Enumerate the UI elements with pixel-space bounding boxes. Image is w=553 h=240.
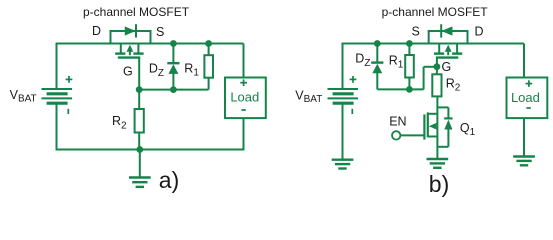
svg-text:D: D — [92, 24, 101, 38]
wire: battery top vertical (right) — [342, 43, 344, 90]
node gate/R2 dot — [136, 86, 143, 93]
svg-text:D: D — [475, 25, 484, 39]
svg-text:b): b) — [429, 171, 449, 197]
svg-text:VBAT: VBAT — [10, 88, 37, 105]
MOSFET channel structure (right) — [434, 44, 462, 58]
wire: top rail S-D — [343, 43, 525, 45]
svg-text:G: G — [442, 60, 452, 74]
wire: top rail D-S — [57, 43, 244, 45]
resistor R2 (right) — [432, 67, 441, 97]
wire: battery bottom vertical — [56, 103, 58, 150]
EN input circle — [392, 131, 424, 139]
ground (right battery) — [332, 160, 354, 169]
svg-text:EN: EN — [389, 115, 406, 129]
wire: jog horizontal to G dot — [424, 66, 437, 68]
svg-text:R2: R2 — [446, 77, 461, 94]
resistor R1 (left) — [204, 44, 213, 90]
ground (right load) — [513, 157, 535, 166]
MOSFET body diode loop (right, mirrored) — [428, 24, 469, 44]
node DZ top dot (right) — [374, 40, 381, 47]
svg-text:DZ: DZ — [149, 62, 164, 79]
zener diode DZ (right) — [371, 44, 383, 90]
node R2 bottom dot — [136, 146, 143, 153]
svg-text:Load: Load — [230, 90, 259, 105]
zener diode DZ (left) — [167, 44, 179, 90]
svg-text:S: S — [156, 25, 164, 39]
node G dot (right) — [434, 63, 441, 70]
svg-text:G: G — [123, 65, 133, 79]
transistor Q1 N-MOSFET — [424, 96, 452, 158]
svg-text:VBAT: VBAT — [295, 88, 322, 105]
resistor R2 (left) — [135, 90, 144, 150]
wire: battery top vertical — [56, 43, 58, 90]
svg-text:Q1: Q1 — [460, 121, 476, 138]
svg-text:a): a) — [159, 167, 179, 193]
svg-text:p-channel MOSFET: p-channel MOSFET — [83, 5, 190, 19]
resistor R1 (right) — [405, 44, 414, 90]
wire: node line DZ-R1-jog — [377, 88, 423, 90]
wire: jog vertical up — [423, 67, 425, 90]
node R1 bottom dot (right) — [406, 86, 413, 93]
wire: gate node line — [139, 89, 208, 91]
node DZ bottom dot — [170, 86, 177, 93]
node R1 top dot — [205, 40, 212, 47]
MOSFET channel structure (left) — [115, 44, 143, 58]
ground (left circuit) — [129, 150, 151, 187]
svg-text:R1: R1 — [389, 53, 404, 70]
svg-text:R2: R2 — [112, 114, 127, 132]
junction dots left — [136, 40, 441, 153]
load box (left) — [225, 44, 266, 151]
battery VBAT (left) — [42, 76, 73, 114]
svg-text:DZ: DZ — [355, 52, 370, 69]
load box (right) — [507, 44, 548, 157]
svg-text:R1: R1 — [184, 61, 199, 78]
node R1 top dot (right) — [406, 40, 413, 47]
svg-text:S: S — [412, 24, 420, 38]
wire: gate drop to node — [138, 58, 140, 90]
wire: gate drop to G node (right) — [436, 58, 438, 67]
MOSFET body diode loop (left) — [110, 24, 152, 44]
battery VBAT (right) — [328, 76, 359, 114]
node S dot — [170, 40, 177, 47]
svg-text:Load: Load — [511, 90, 540, 105]
ground (Q1 source) — [427, 159, 449, 168]
wire: bottom rail — [57, 149, 245, 151]
wire: battery bottom vertical (right) — [342, 103, 344, 159]
svg-text:p-channel MOSFET: p-channel MOSFET — [382, 5, 489, 19]
